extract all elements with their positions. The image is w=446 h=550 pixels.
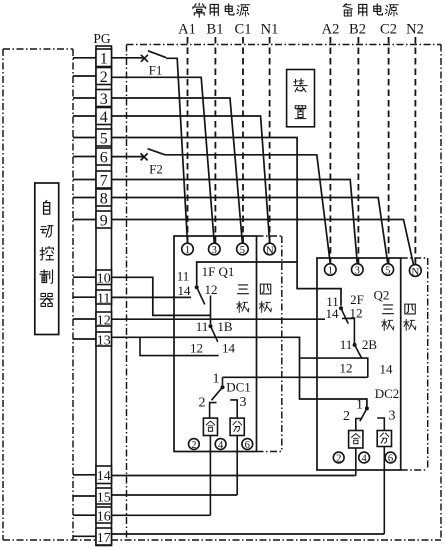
svg-text:B2: B2 — [349, 22, 366, 38]
terminal 17 — [96, 528, 112, 546]
device boundary (dash-dot box right) — [127, 45, 442, 541]
svg-text:5: 5 — [385, 266, 390, 277]
wire F1 to breaker terminal 1 — [166, 58, 188, 243]
node 6 of Q1 — [242, 439, 253, 451]
label 常用电源 (normal supply) — [193, 3, 250, 17]
svg-text:DC2: DC2 — [375, 386, 400, 401]
svg-text:N: N — [411, 266, 419, 278]
svg-text:14: 14 — [222, 341, 236, 356]
svg-text:14: 14 — [97, 469, 111, 484]
wire DC1 pin1 stub — [222, 377, 224, 385]
wire DC2 pin3 hook — [377, 418, 384, 431]
wire terminal7 to Q2 terminal 3 — [112, 180, 358, 264]
terminal 8 — [96, 189, 112, 207]
wire terminal17 to DC2 open coil — [112, 533, 385, 535]
contact 1F pivot 11 — [195, 285, 199, 289]
pole label 四极 Q2 — [404, 304, 416, 330]
svg-text:3: 3 — [389, 408, 396, 423]
wire F2 to Q2 terminal 1 — [165, 155, 330, 264]
svg-text:1: 1 — [185, 245, 190, 256]
svg-text:A2: A2 — [322, 22, 340, 38]
contact 2F blade — [341, 308, 348, 323]
wire 2F-12 to 2B-11 — [342, 318, 354, 343]
svg-text:Q2: Q2 — [374, 288, 390, 303]
wire 1F-12 to 1B-11 — [210, 296, 212, 325]
svg-text:12: 12 — [340, 361, 353, 376]
wire terminal2 to breaker terminal 3 — [112, 77, 215, 243]
svg-text:11: 11 — [196, 319, 209, 334]
svg-text:3: 3 — [212, 245, 217, 256]
svg-text:3: 3 — [100, 91, 108, 108]
wire C2 — [388, 37, 390, 264]
svg-text:9: 9 — [100, 212, 108, 229]
svg-text:17: 17 — [97, 531, 111, 546]
svg-text:Q1: Q1 — [219, 264, 235, 279]
svg-text:1: 1 — [328, 266, 333, 277]
node 2 of Q1 — [189, 439, 200, 451]
node 3 of Q1 — [209, 243, 221, 256]
svg-text:F2: F2 — [149, 162, 163, 177]
svg-text:12: 12 — [205, 282, 218, 297]
wire N1 — [269, 37, 271, 243]
svg-text:6: 6 — [245, 440, 250, 451]
terminal 3 — [96, 90, 112, 108]
svg-text:11: 11 — [97, 291, 110, 306]
breaker Q2 outline (3-pole section) — [317, 258, 401, 470]
controller boundary (dash-dot box left) — [3, 49, 73, 540]
breaker Q1 outline (3-pole section) — [174, 236, 257, 452]
svg-text:1: 1 — [356, 398, 363, 413]
wire close coil DC1 down — [209, 436, 211, 516]
terminal 13 — [96, 332, 112, 348]
svg-text:2: 2 — [343, 409, 350, 424]
svg-text:7: 7 — [100, 172, 108, 189]
node 5 of Q2 — [382, 264, 394, 277]
wire stubs controller to terminals 1-17 — [73, 58, 96, 537]
terminal 14 — [96, 466, 112, 484]
svg-text:2: 2 — [100, 69, 108, 86]
svg-text:4: 4 — [218, 440, 224, 451]
svg-text:N: N — [266, 244, 274, 256]
terminal 1 — [96, 49, 112, 68]
device label box 装置 — [287, 70, 315, 127]
node 1 of Q2 — [325, 264, 337, 277]
svg-text:2B: 2B — [362, 337, 378, 352]
actuator DC1 pivot — [221, 385, 225, 389]
svg-text:4: 4 — [361, 454, 367, 465]
svg-text:DC1: DC1 — [226, 380, 251, 395]
svg-text:A1: A1 — [178, 22, 196, 38]
actuator DC1 blade — [212, 387, 223, 400]
coil 分 (open) DC1 — [230, 418, 244, 435]
terminal 11 — [96, 290, 112, 306]
svg-text:2: 2 — [336, 454, 341, 465]
terminal 9 — [96, 211, 112, 229]
breaker Q1 N-pole section (dash-dot) — [257, 236, 282, 452]
svg-text:16: 16 — [97, 509, 111, 524]
wire A2 — [329, 37, 331, 264]
terminal 12 — [96, 312, 112, 328]
pole label 四极 Q1 — [259, 284, 271, 312]
terminal 7 — [96, 171, 112, 189]
svg-text:12: 12 — [190, 341, 203, 356]
node 2 of Q2 — [333, 452, 344, 464]
terminal 2 — [96, 68, 112, 86]
pole label 三极 Q2 — [382, 305, 394, 331]
svg-text:11: 11 — [340, 337, 353, 352]
svg-text:4: 4 — [100, 109, 108, 126]
svg-text:5: 5 — [100, 130, 108, 147]
wire terminal11 to contact 1F-14 — [112, 296, 192, 298]
terminal 6 — [96, 148, 112, 166]
svg-text:14: 14 — [326, 306, 340, 321]
wire terminal9 to Q2 terminal N — [112, 220, 414, 266]
node 6 of Q2 — [385, 452, 396, 464]
wire DC2 pin2 hook — [356, 419, 363, 431]
contact 1F blade — [197, 287, 205, 304]
wire terminal12 to contacts 1B-11 / 2F-14 — [112, 318, 326, 320]
svg-text:14: 14 — [380, 362, 394, 377]
svg-text:11: 11 — [177, 269, 190, 284]
coil 合 (close) DC2 — [349, 431, 363, 449]
wire terminal3 to breaker terminal 5 — [112, 98, 243, 243]
svg-text:6: 6 — [100, 149, 108, 166]
svg-text:1F: 1F — [202, 264, 216, 279]
contact 2B pivot 11 — [353, 343, 357, 347]
wire terminal16 to DC1 close coil — [112, 514, 211, 516]
terminal strip PG — [93, 31, 111, 546]
svg-text:13: 13 — [97, 333, 111, 348]
svg-text:6: 6 — [388, 454, 393, 465]
svg-text:PG: PG — [93, 31, 111, 46]
svg-text:3: 3 — [355, 266, 360, 277]
actuator DC2 blade — [360, 408, 367, 421]
svg-text:N1: N1 — [261, 22, 279, 38]
coil 合 (close) DC1 — [203, 418, 217, 435]
actuator DC2 pivot — [365, 406, 369, 410]
node 4 of Q2 — [359, 452, 370, 464]
svg-text:5: 5 — [240, 245, 245, 256]
wire terminal14 to DC2 close coil — [112, 475, 356, 477]
terminal 5 — [96, 129, 112, 147]
phase labels A1 B1 C1 N1 — [178, 22, 278, 38]
node 3 of Q2 — [352, 264, 364, 277]
contact 2F pivot 11 — [339, 306, 343, 310]
terminal 4 — [96, 108, 112, 126]
wire close coil DC2 down — [355, 448, 357, 476]
svg-text:14: 14 — [178, 283, 192, 298]
contact 1B pivot 11 — [209, 324, 213, 328]
svg-text:C1: C1 — [235, 22, 252, 38]
wire terminal4 to breaker terminal N — [112, 116, 270, 243]
terminal 15 — [96, 488, 112, 505]
wire C1 — [242, 37, 244, 243]
node 4 of Q1 — [215, 439, 226, 451]
node 1 of Q1 — [182, 243, 194, 256]
contact 1F frame wire — [197, 262, 297, 285]
node N of Q1 — [264, 243, 276, 256]
svg-text:10: 10 — [97, 272, 111, 287]
terminal 10 — [96, 270, 112, 287]
wire A1 — [187, 37, 189, 243]
fuse F1 — [141, 51, 166, 62]
wire terminal1 to fuse F1 — [112, 57, 145, 59]
wire terminal10 command — [112, 277, 211, 315]
svg-text:B1: B1 — [207, 22, 224, 38]
svg-text:F1: F1 — [149, 63, 163, 78]
fuse F2 — [141, 149, 165, 161]
wire terminal5 common drop — [112, 138, 342, 306]
svg-text:1B: 1B — [217, 319, 233, 334]
wire terminal13 to contact 1B / DC node — [112, 337, 367, 406]
phase labels A2 B2 C2 N2 — [322, 22, 424, 38]
pole label 三极 Q1 — [237, 285, 249, 313]
label 备用电源 (backup supply) — [343, 4, 398, 16]
svg-text:8: 8 — [100, 190, 108, 207]
controller box 自动控制器 — [35, 183, 59, 335]
wire terminal15 to DC1 open coil — [112, 494, 238, 496]
svg-text:2: 2 — [191, 440, 196, 451]
wire terminal8 to Q2 terminal 5 — [112, 198, 388, 264]
wire open coil DC2 down — [383, 447, 385, 535]
contact 1B blade — [211, 326, 218, 342]
svg-text:1: 1 — [213, 372, 220, 387]
svg-text:N2: N2 — [406, 22, 424, 38]
svg-text:C2: C2 — [380, 22, 397, 38]
wire DC command node line — [223, 376, 368, 378]
wire N2 — [414, 37, 416, 265]
wire B1 — [214, 37, 216, 243]
wire DC1 pin3 hook — [230, 400, 237, 418]
wire DC1 pin2 hook — [210, 403, 217, 419]
wire terminal6 to fuse F2 — [112, 156, 145, 158]
wire B2 — [357, 37, 359, 264]
node 5 of Q1 — [237, 243, 249, 256]
coil 分 (open) DC2 — [377, 431, 391, 447]
breaker Q2 N-pole section (dash-dot) — [401, 258, 428, 470]
bottom boundary line — [3, 539, 441, 541]
svg-text:15: 15 — [97, 490, 111, 505]
wire 1B-12 contact line — [140, 337, 219, 355]
wire open coil DC1 down — [236, 436, 238, 496]
contact 2B blade — [355, 345, 362, 359]
svg-text:3: 3 — [240, 395, 247, 410]
wire 2B-12 contact line — [300, 358, 368, 377]
svg-text:12: 12 — [97, 313, 111, 328]
terminal 16 — [96, 507, 112, 524]
node N of Q2 — [409, 265, 421, 278]
svg-text:2: 2 — [199, 396, 206, 411]
svg-text:1: 1 — [100, 51, 108, 68]
